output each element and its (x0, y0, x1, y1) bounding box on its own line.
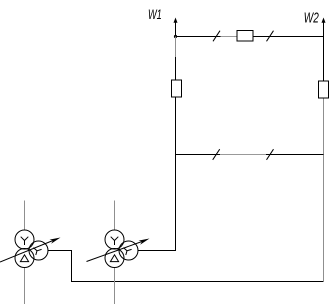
wire: middle tie line (left segment) (176, 154, 221, 156)
wire: W2 feeder upper segment (323, 37, 325, 82)
T1 LV winding symbol delta (20, 255, 28, 262)
breaker (rectangle symbol) on W1 feeder (172, 80, 182, 97)
transformer T1 LV winding (circle, delta) (15, 249, 34, 268)
wire: middle tie line (right segment) (266, 154, 324, 156)
feeder arrow W2 (line continuation upward) (322, 18, 326, 37)
slash mark (conductor tick) right on middle tie (267, 149, 274, 160)
wire: top tie line (faded segment before resistor) (221, 36, 238, 38)
svg-text:W1: W1 (148, 8, 162, 22)
T2 LV winding symbol delta (110, 255, 118, 262)
junction node at W1 / top tie (174, 35, 177, 38)
transformer T2 LV winding (circle, delta) (105, 249, 124, 268)
wire: T1 HV stub (24, 201, 26, 231)
wire: bottom run, up and left to transformer T1 (48, 251, 324, 282)
resistor (rectangle symbol) on top tie (237, 31, 253, 42)
wire: W1 feeder down + turn left to transformer T2 (138, 57, 176, 251)
wire: T2 HV stub (114, 201, 116, 231)
T1 MV winding symbol rotated Y (33, 248, 41, 255)
transformer T2 MV winding (circle, rotated Y) (119, 241, 138, 260)
T2 HV winding symbol Y (111, 237, 119, 245)
T2 MV winding symbol rotated Y (123, 248, 131, 255)
tap-changer arrow through T1 (0, 238, 61, 263)
T1 HV winding symbol Y (21, 237, 29, 245)
wire: W2 feeder faded long segment (323, 98, 325, 281)
slash mark (conductor tick) left on top tie (213, 31, 220, 42)
slash mark (conductor tick) right on top tie (267, 31, 274, 42)
svg-text:W2: W2 (304, 10, 319, 26)
wire: top tie line between W1 and W2 (left segment) (176, 36, 221, 38)
feeder arrow W1 (line continuation upward) (174, 18, 178, 37)
transformer T1 HV winding (circle, star Y) (15, 230, 34, 249)
transformer T2 HV winding (circle, star Y) (105, 230, 124, 249)
tap-changer arrow through T2 (87, 239, 150, 262)
wire: T1 LV stub down (24, 268, 26, 304)
wire: W1 feeder faded segment below bus (175, 37, 177, 58)
wire: T2 LV stub down (114, 268, 116, 304)
wire: middle tie line (faded middle segment) (220, 154, 266, 156)
wire: top tie line (right segment) (253, 36, 324, 38)
transformer T1 MV winding (circle, rotated Y) (29, 241, 48, 260)
slash mark (conductor tick) left on middle tie (213, 149, 220, 160)
breaker (rectangle symbol) on W2 feeder (319, 81, 329, 98)
